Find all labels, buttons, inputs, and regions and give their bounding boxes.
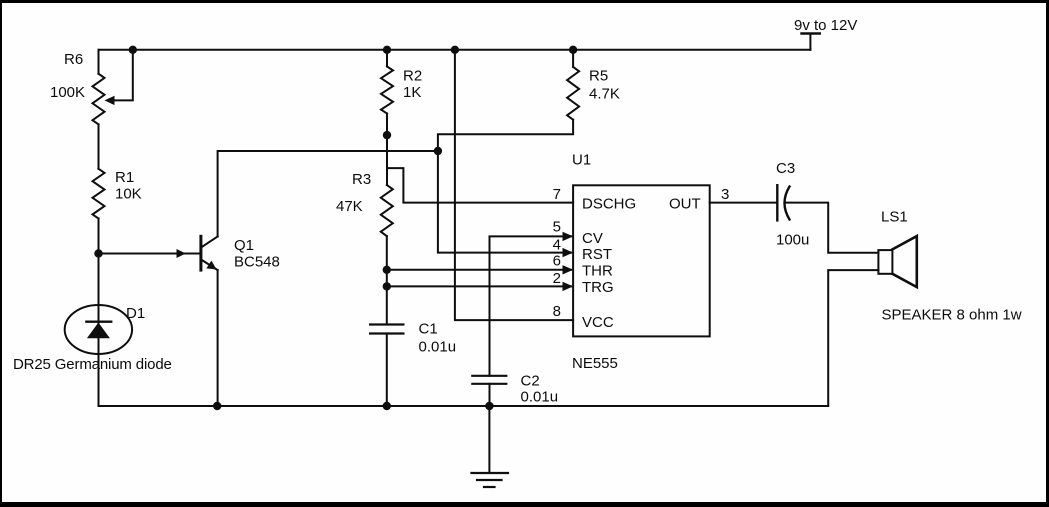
ground <box>472 473 509 487</box>
svg-text:OUT: OUT <box>669 196 701 213</box>
wire: bottom ground rail <box>99 405 829 407</box>
wire: R6 to R1 <box>98 124 100 168</box>
pin arrow 6 <box>563 265 574 274</box>
wire: diode branch vertical <box>98 254 100 407</box>
wire: Q1 emitter down to ground rail <box>217 270 219 406</box>
wire: step tap to DSCHG pin 7 <box>387 168 573 203</box>
svg-text:2: 2 <box>553 270 561 287</box>
node: C1 on bottom rail <box>383 402 391 410</box>
wire: CV pin 5 to C2 <box>490 236 572 375</box>
wire: R3 bottom to THR/TRG nodes <box>386 236 388 286</box>
capacitor C3 <box>777 185 789 220</box>
wire: rail down to VCC pin 8 <box>455 50 573 320</box>
svg-text:TRG: TRG <box>582 279 614 296</box>
wire: TRG to pin 2 <box>387 285 571 287</box>
resistor R6 (potentiometer body) <box>93 74 105 125</box>
svg-text:7: 7 <box>553 186 561 203</box>
R6 wiper arm <box>105 50 133 105</box>
svg-text:0.01u: 0.01u <box>521 389 559 406</box>
outer frame <box>0 0 1049 3</box>
svg-text:DR25 Germanium diode: DR25 Germanium diode <box>13 356 172 373</box>
svg-text:CV: CV <box>582 230 603 247</box>
wire: ground stem <box>488 406 490 473</box>
svg-text:4.7K: 4.7K <box>589 86 620 103</box>
node: base junction <box>94 249 102 257</box>
node: R6 top / wiper junction <box>129 46 137 54</box>
svg-text:100K: 100K <box>50 84 85 101</box>
capacitor C2 <box>472 376 506 384</box>
svg-text:U1: U1 <box>572 152 591 169</box>
svg-text:1K: 1K <box>403 84 421 101</box>
diode D1 <box>65 305 132 354</box>
pin arrow 5 <box>563 232 574 241</box>
node: R2 top on rail <box>383 46 391 54</box>
power terminal 9v to 12V <box>802 34 820 50</box>
node: VCC drop on rail <box>451 46 459 54</box>
wire: R6 top lead <box>98 50 100 74</box>
node: R5 top on rail <box>569 46 577 54</box>
wire: C2 to bottom rail <box>489 384 491 406</box>
wire: +V top rail <box>99 49 811 51</box>
wire: R1 bottom to base node <box>98 219 100 254</box>
capacitor C1 <box>370 325 403 334</box>
svg-text:C3: C3 <box>776 160 795 177</box>
svg-text:R6: R6 <box>64 51 83 68</box>
svg-text:4: 4 <box>553 237 561 254</box>
svg-text:0.01u: 0.01u <box>419 339 457 356</box>
svg-text:D1: D1 <box>126 305 145 322</box>
svg-text:C1: C1 <box>419 321 438 338</box>
wire: R2 top lead <box>386 50 388 67</box>
wire: R2 bottom lead <box>386 114 388 136</box>
wire: junction to R3 top <box>386 135 388 185</box>
svg-text:R2: R2 <box>403 68 422 85</box>
svg-text:Q1: Q1 <box>234 237 254 254</box>
wire: Q1 collector up and right <box>218 151 438 237</box>
wire: junction down to RST pin 4 <box>438 151 571 253</box>
resistor R5 <box>567 67 579 120</box>
wire: junction up to R5 bottom <box>438 120 573 151</box>
node: R2/R3 junction <box>383 131 391 139</box>
node: collector / RST junction <box>434 147 442 155</box>
wire: R5 top lead <box>572 50 574 67</box>
svg-text:9v to 12V: 9v to 12V <box>794 17 857 34</box>
transistor Q1 <box>201 236 218 270</box>
wire: C3 to speaker top terminal <box>785 203 878 253</box>
node: THR junction <box>383 266 391 274</box>
wire: speaker bottom terminal to bottom rail <box>828 270 878 406</box>
wire: C1 to bottom rail <box>386 334 388 407</box>
svg-text:BC548: BC548 <box>234 254 280 271</box>
resistor R2 <box>381 67 393 114</box>
svg-text:NE555: NE555 <box>572 355 618 372</box>
resistor R1 <box>93 169 105 219</box>
svg-text:6: 6 <box>553 253 561 270</box>
wire: OUT pin 3 to C3 <box>710 202 778 204</box>
node: TRG junction <box>383 282 391 290</box>
svg-text:47K: 47K <box>336 198 363 215</box>
svg-text:LS1: LS1 <box>881 209 908 226</box>
wire: down to C1 <box>386 286 388 324</box>
svg-text:8: 8 <box>553 303 561 320</box>
svg-text:RST: RST <box>582 246 612 263</box>
svg-text:10K: 10K <box>115 186 142 203</box>
svg-text:5: 5 <box>553 219 561 236</box>
pin arrow 4 <box>563 248 574 257</box>
svg-text:VCC: VCC <box>582 314 614 331</box>
resistor R3 <box>381 185 393 236</box>
svg-text:C2: C2 <box>521 373 540 390</box>
svg-text:3: 3 <box>721 186 729 203</box>
node: C2/ground on bottom rail <box>485 402 493 410</box>
speaker LS1 <box>878 236 916 287</box>
svg-text:THR: THR <box>582 263 613 280</box>
wire: base wire to Q1 <box>99 249 200 258</box>
node: emitter on bottom rail <box>213 402 221 410</box>
svg-text:100u: 100u <box>776 232 809 249</box>
svg-text:R5: R5 <box>589 68 608 85</box>
svg-text:SPEAKER 8 ohm 1w: SPEAKER 8 ohm 1w <box>882 307 1022 324</box>
svg-text:DSCHG: DSCHG <box>582 196 636 213</box>
pin arrow 2 <box>563 282 574 291</box>
wire: THR to pin 6 <box>387 269 571 271</box>
svg-text:R1: R1 <box>115 169 134 186</box>
svg-text:R3: R3 <box>352 171 371 188</box>
op-amp U1 (NE555 timer box) <box>573 185 710 336</box>
